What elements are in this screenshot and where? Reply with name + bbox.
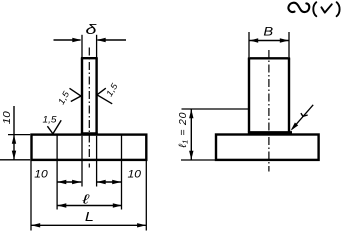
svg-text:10: 10 — [2, 110, 13, 124]
svg-text:10: 10 — [127, 169, 141, 180]
svg-text:B: B — [263, 25, 273, 38]
svg-text:L: L — [85, 210, 94, 224]
svg-text:10: 10 — [34, 169, 48, 180]
svg-text:δ: δ — [85, 21, 97, 37]
svg-text:ℓ: ℓ — [81, 192, 89, 207]
svg-text:ℓ₁ = 20: ℓ₁ = 20 — [177, 112, 189, 149]
svg-text:1,5: 1,5 — [42, 115, 57, 125]
